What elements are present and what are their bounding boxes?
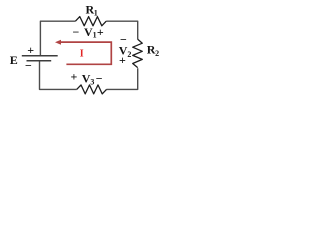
svg-text:E: E (10, 53, 18, 67)
resistor R3 zigzag (77, 85, 107, 94)
wire right vertical below R2 to bottom-right corner (107, 68, 138, 89)
battery E top plate (22, 55, 58, 57)
wire bottom-left segment and left vertical up to battery (40, 61, 77, 89)
svg-text:+: + (27, 43, 34, 57)
svg-text:−: − (96, 72, 103, 86)
svg-text:−: − (25, 59, 32, 73)
svg-text:+: + (119, 53, 126, 67)
resistor R2 zigzag (133, 39, 143, 67)
battery E bottom plate (27, 60, 52, 62)
svg-text:+: + (97, 25, 104, 39)
current loop arrowhead (55, 40, 61, 45)
svg-text:+: + (71, 70, 78, 84)
current loop arrow (red) (59, 42, 111, 64)
svg-text:I: I (80, 49, 84, 60)
svg-text:1: 1 (94, 9, 98, 18)
wire top-right segment with right vertical down to R2 (106, 21, 138, 39)
svg-text:3: 3 (90, 78, 94, 87)
svg-text:2: 2 (155, 49, 159, 58)
wire top-left segment with left vertical (40, 21, 75, 55)
svg-text:−: − (73, 25, 80, 39)
resistor R1 zigzag (75, 17, 106, 26)
svg-text:2: 2 (127, 50, 131, 59)
